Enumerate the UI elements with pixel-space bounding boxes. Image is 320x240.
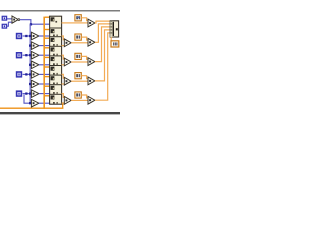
constant C4 [16, 90, 22, 96]
converter T2 [31, 42, 39, 50]
wire stack to A1 lower [62, 45, 65, 46]
wire C1 to bus [23, 35, 31, 36]
node bus tap T6 [29, 83, 31, 85]
multiplier M3 [88, 58, 95, 66]
node C4 junction [25, 92, 27, 94]
wire K3 to M3 [81, 56, 88, 59]
node bus tap T4 [29, 64, 31, 66]
wire K5 to M5 [81, 95, 88, 98]
converter T3 [31, 51, 39, 59]
stack divider 6 [50, 75, 62, 76]
node bus tap T2 [29, 44, 31, 46]
indicator IND1 [111, 41, 119, 47]
wire stack to A2 lower [62, 64, 65, 65]
wire U1 cell to M1 [62, 22, 88, 23]
wire bundle to IND1 [110, 37, 112, 41]
converter T8 [31, 99, 39, 107]
multiplier M4 [88, 77, 95, 85]
wire stack to A3 upper [62, 74, 65, 78]
adder A3 [64, 77, 71, 85]
wire bus stub 5 [45, 57, 50, 58]
wire bus stub 2 [45, 29, 50, 30]
wire stack bottom branch [62, 102, 64, 108]
wire orange bus [43, 17, 45, 109]
wire bus stub 3 [45, 38, 50, 39]
wire stack to A4 upper [62, 94, 65, 98]
stack cell glyph 6 [51, 67, 58, 75]
stack divider 2 [50, 36, 62, 37]
stack cell glyph 3 [51, 38, 58, 46]
node bus tap T7 [29, 92, 31, 94]
stack cell glyph 4 [51, 47, 58, 55]
stack divider 3 [50, 46, 62, 47]
converter T0 [12, 16, 20, 23]
wire A1 to M2 [71, 42, 88, 43]
wire stack to A3 lower [62, 83, 65, 84]
converter T6 [31, 80, 39, 88]
constant C3 [16, 71, 22, 77]
wire T6 to stack [39, 83, 50, 84]
constant B2 [2, 24, 8, 29]
wire C2 to bus [23, 55, 31, 56]
wire B2 to T0 [6, 22, 12, 26]
wire M1 to bundle [95, 21, 110, 23]
node C1 junction [25, 35, 27, 37]
adder A1 [64, 39, 71, 47]
constant K2 [75, 34, 81, 40]
wire T8 to stack [39, 103, 50, 104]
constant B1 [2, 16, 8, 21]
wire T5 to stack [39, 74, 50, 75]
wire T4 to stack [39, 64, 50, 65]
stack cell glyph 9 [51, 95, 58, 103]
converter T1 [31, 32, 39, 40]
stack cell glyph 1 [51, 17, 58, 22]
node bus tap T8 [29, 102, 31, 104]
wire T2 to stack [39, 45, 50, 46]
multiplier M2 [88, 38, 95, 46]
node bus tap T1 [29, 35, 31, 37]
wire blue bus [30, 24, 31, 104]
node C2 junction [25, 54, 27, 56]
wire bus stub 8 [45, 86, 50, 87]
node C3 junction [25, 73, 27, 75]
wire bus stub 7 [45, 76, 50, 77]
wire A3 to M4 [71, 81, 88, 82]
wire stack to A2 upper [62, 55, 65, 59]
wire C4 to bus [23, 93, 31, 94]
wire K2 to M2 [81, 37, 88, 40]
stack divider 7 [50, 84, 62, 85]
node blue junction row1 [30, 23, 32, 25]
wire T0 to stack [20, 20, 50, 25]
wire M2 to bundle [95, 24, 110, 42]
multifunction stack U0 frame [50, 16, 62, 104]
converter T7 [31, 90, 39, 98]
stack cell glyph 7 [51, 76, 58, 84]
wire T1 to stack [39, 35, 50, 36]
wire B1 to T0 [7, 18, 12, 19]
wire stack to A4 lower [62, 103, 65, 104]
structure edge top [0, 10, 120, 12]
wire bus stub 1 [45, 17, 50, 18]
constant K5 [75, 92, 81, 98]
wire stack to A1 upper [62, 36, 65, 40]
wire T3 to stack [39, 55, 50, 56]
structure edge bottom [0, 112, 120, 115]
node bus tap T5 [29, 73, 31, 75]
stack cell glyph 5 [51, 57, 58, 65]
stack divider 5 [50, 65, 62, 66]
stack divider 8 [50, 94, 62, 95]
constant K1 [75, 15, 81, 21]
node bus tap T3 [29, 54, 31, 56]
adder A2 [64, 58, 71, 66]
multiplier M1 [88, 19, 95, 27]
wire M5 to bundle [95, 33, 110, 100]
wire C4 drop to T8 [24, 94, 30, 103]
wire K1 to M1 [81, 18, 88, 21]
multiplier M5 [88, 96, 95, 104]
wire M3 to bundle [95, 27, 110, 62]
wire bus stub 9 [45, 95, 50, 96]
converter T4 [31, 61, 39, 69]
stack cell glyph 8 [51, 86, 58, 94]
wire bus stub 6 [45, 66, 50, 67]
constant K4 [75, 73, 81, 79]
wire bus stub 4 [45, 47, 50, 48]
converter T5 [31, 71, 39, 79]
adder A4 [64, 97, 71, 105]
constant C1 [16, 33, 22, 39]
bundle U9 [110, 21, 118, 37]
stack cell glyph 2 [51, 29, 58, 36]
wire K4 to M4 [81, 76, 88, 79]
wire A4 to M5 [71, 100, 88, 101]
wire T7 to stack [39, 93, 50, 94]
wire M4 to bundle [95, 30, 110, 81]
constant K3 [75, 53, 81, 59]
stack divider 4 [50, 55, 62, 56]
stack divider 1 [50, 28, 62, 29]
constant C2 [16, 52, 22, 58]
wire bottom bus [0, 108, 63, 109]
wire C3 to bus [23, 74, 31, 75]
wire A2 to M3 [71, 61, 88, 62]
